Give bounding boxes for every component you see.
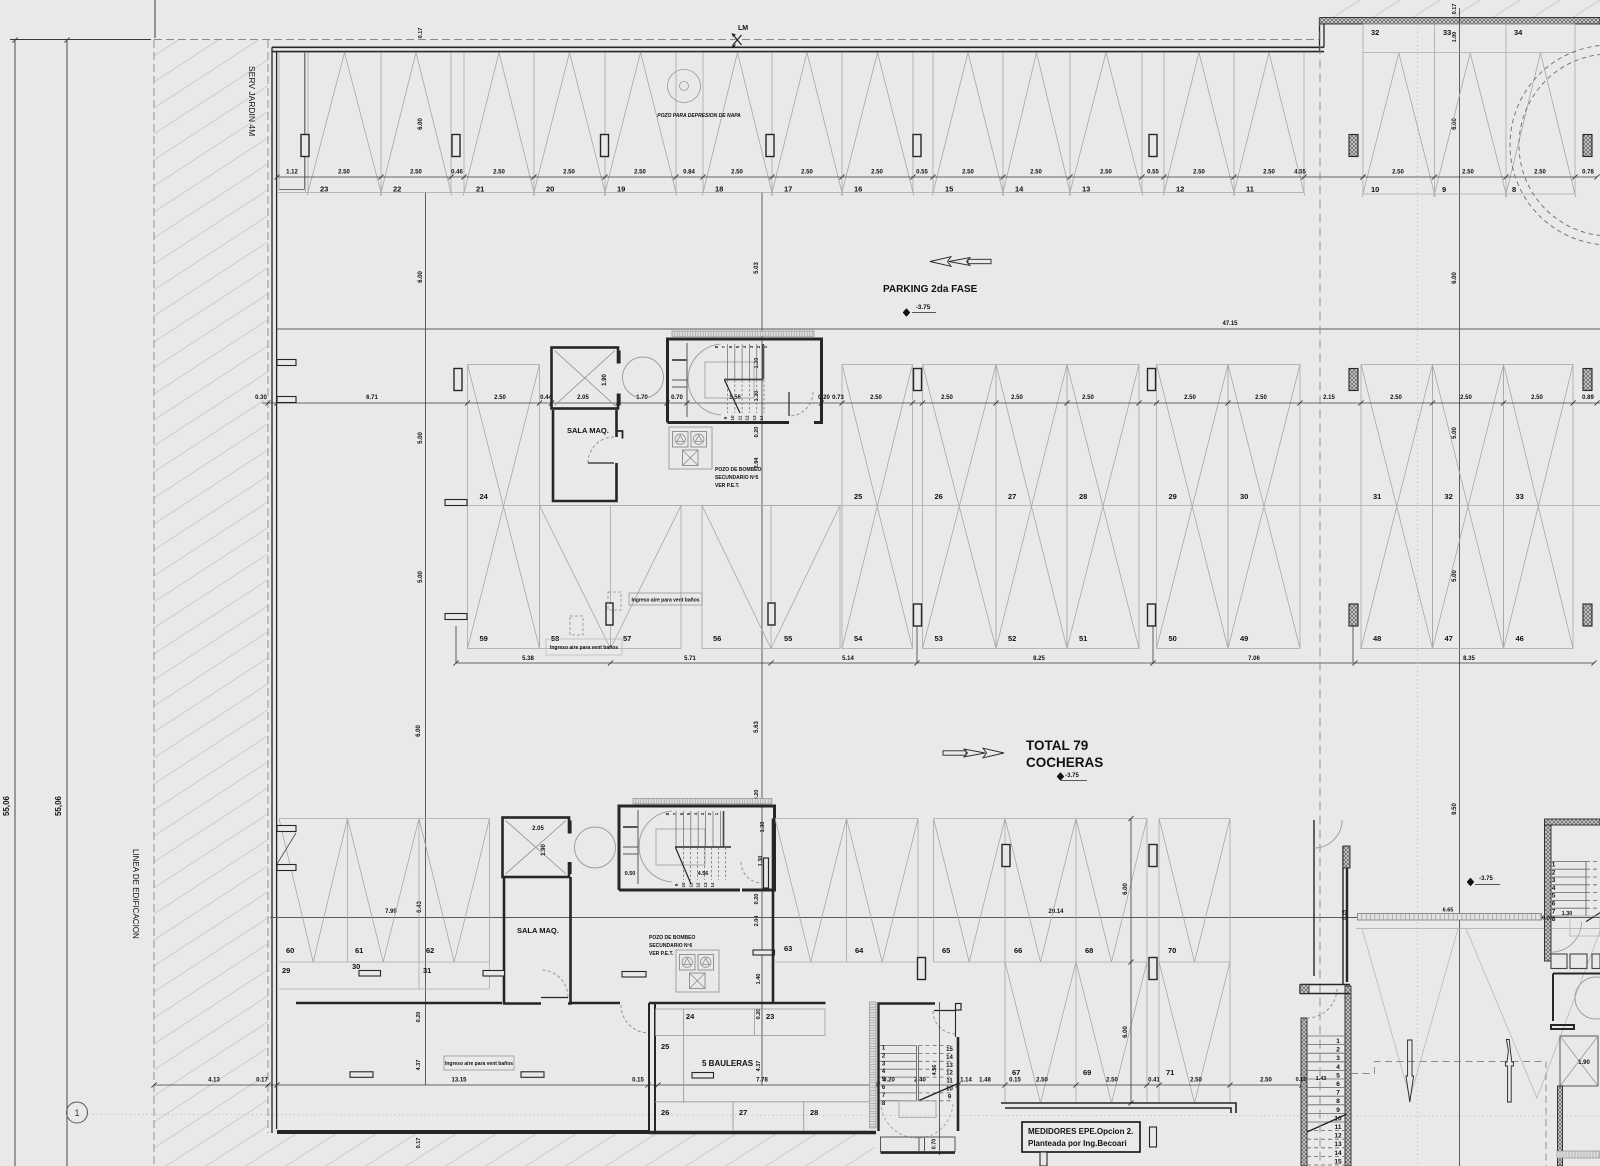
comb bottom right <box>1557 1151 1600 1158</box>
svg-text:0.17: 0.17 <box>418 28 424 39</box>
svg-text:13: 13 <box>1334 1141 1342 1148</box>
crosshatched boundary wall top right <box>1320 18 1600 25</box>
wall stubs left wall <box>277 360 296 366</box>
stair 3 door leaf <box>934 1010 956 1012</box>
svg-text:9: 9 <box>1442 185 1446 194</box>
svg-text:6.65: 6.65 <box>1443 908 1454 914</box>
svg-text:32: 32 <box>1445 492 1453 501</box>
svg-text:49: 49 <box>1240 634 1248 643</box>
parking stalls 58/57 pair <box>540 506 682 649</box>
svg-text:32: 32 <box>1371 28 1379 37</box>
svg-text:29: 29 <box>1169 492 1177 501</box>
svg-text:8: 8 <box>1552 916 1556 923</box>
dashed service rects <box>570 616 583 635</box>
reference line x425 <box>425 193 427 1085</box>
svg-text:11: 11 <box>1335 1124 1342 1131</box>
dimension line 55,06 outer <box>14 40 16 1166</box>
svg-text:61: 61 <box>355 946 363 955</box>
horizontal comb strip y917 <box>1358 914 1542 921</box>
stair 1 door arc <box>790 392 813 416</box>
parking stall 63 <box>775 819 847 963</box>
svg-text:5.00: 5.00 <box>418 432 424 444</box>
stair 1 void <box>705 362 754 398</box>
svg-text:2.50: 2.50 <box>962 170 974 176</box>
svg-text:70: 70 <box>1168 946 1176 955</box>
svg-text:2.50: 2.50 <box>1082 395 1094 401</box>
svg-text:27: 27 <box>739 1108 747 1117</box>
svg-text:51: 51 <box>1079 634 1087 643</box>
svg-text:0.15: 0.15 <box>1342 910 1348 920</box>
svg-text:2.50: 2.50 <box>1106 1078 1118 1084</box>
stair 3 landing rect <box>899 1101 936 1118</box>
circle core 1 <box>623 357 664 398</box>
svg-text:6.00: 6.00 <box>1123 1026 1129 1038</box>
svg-text:13: 13 <box>752 415 757 421</box>
grid bubble 1 <box>67 1102 88 1123</box>
svg-text:11: 11 <box>1246 185 1254 194</box>
svg-text:1.43: 1.43 <box>1316 1076 1327 1082</box>
top tick of left dimensions <box>10 39 151 41</box>
svg-text:SALA MAQ.: SALA MAQ. <box>517 926 559 935</box>
svg-text:28: 28 <box>1079 492 1087 501</box>
parking stall 8 <box>1505 53 1540 197</box>
ingreso aire label 2 <box>546 639 622 655</box>
svg-text:25: 25 <box>661 1042 669 1051</box>
stair 2 treads upper <box>675 811 677 847</box>
parking stall 69 <box>1076 962 1147 1103</box>
svg-text:65: 65 <box>942 946 950 955</box>
LM marker cross <box>733 34 742 45</box>
parking stalls 26/53 column <box>923 365 997 649</box>
svg-text:22: 22 <box>393 185 401 194</box>
medidores box <box>1022 1122 1140 1152</box>
svg-text:5.00: 5.00 <box>1452 427 1458 439</box>
svg-text:0.55: 0.55 <box>916 170 928 176</box>
svg-text:69: 69 <box>1083 1068 1091 1077</box>
svg-text:15: 15 <box>945 185 953 194</box>
svg-text:2.50: 2.50 <box>494 395 506 401</box>
svg-text:55,06: 55,06 <box>2 795 11 816</box>
svg-text:6.00: 6.00 <box>1123 883 1129 895</box>
svg-text:2.40: 2.40 <box>914 1078 926 1084</box>
middle band bottom dimension y663 <box>456 662 1594 664</box>
stair core 2 walls <box>619 806 775 890</box>
stair 1 guide arc <box>688 344 721 415</box>
svg-text:67: 67 <box>1012 1068 1020 1077</box>
stair 4 up line <box>1307 1114 1347 1132</box>
parking stalls 29/50 column <box>1157 365 1229 649</box>
level marker -3.75 cocheras <box>1057 773 1064 781</box>
svg-text:2.50: 2.50 <box>1534 170 1546 176</box>
stair 4 door arc <box>1307 988 1337 1018</box>
svg-text:POZO DE BOMBEO: POZO DE BOMBEO <box>715 467 762 473</box>
stair 4 right wall <box>1345 986 1351 1166</box>
hatched columns top row right <box>1349 135 1358 157</box>
stair 3 vertical dim <box>939 1002 941 1155</box>
right section top line <box>1356 928 1600 930</box>
svg-text:0.70: 0.70 <box>932 1139 938 1150</box>
stair 5 guide arc <box>1552 922 1581 953</box>
svg-text:19: 19 <box>617 185 625 194</box>
svg-text:71: 71 <box>1166 1068 1174 1077</box>
svg-text:9: 9 <box>1336 1107 1340 1114</box>
toilet room walls <box>1551 974 1600 1030</box>
stair 3 guide arc bottom <box>881 1102 953 1138</box>
lockers 29 30 31 <box>279 988 490 990</box>
stair core 1 comb <box>672 331 814 336</box>
svg-text:5: 5 <box>1552 893 1556 900</box>
svg-text:11: 11 <box>737 415 742 420</box>
svg-text:2.50: 2.50 <box>1036 1078 1048 1084</box>
svg-text:33: 33 <box>1516 492 1524 501</box>
parking stalls 25/54 column <box>842 365 913 649</box>
svg-text:63: 63 <box>784 944 792 953</box>
small column rects bottom <box>1150 1127 1157 1147</box>
svg-text:2.50: 2.50 <box>410 170 422 176</box>
top right dim line <box>1363 176 1597 178</box>
svg-text:5.03: 5.03 <box>754 262 760 274</box>
svg-text:2.50: 2.50 <box>941 395 953 401</box>
svg-text:11: 11 <box>688 882 693 887</box>
svg-text:0.20: 0.20 <box>1542 916 1552 922</box>
bauleras shelf strip <box>656 1009 826 1036</box>
parking stall 19 <box>604 53 640 196</box>
svg-text:-3.75: -3.75 <box>1065 773 1079 779</box>
svg-text:1: 1 <box>1336 1038 1340 1045</box>
sala maq 2 room <box>504 877 571 1004</box>
svg-text:SECUNDARIO Nº6: SECUNDARIO Nº6 <box>649 943 692 949</box>
svg-text:13.15: 13.15 <box>451 1078 467 1084</box>
parking stalls 32/47 column <box>1433 365 1504 649</box>
svg-text:6.00: 6.00 <box>418 118 424 130</box>
svg-text:1.40: 1.40 <box>756 974 762 985</box>
svg-text:6.00: 6.00 <box>1452 272 1458 284</box>
svg-text:LINEA DE EDIFICACION: LINEA DE EDIFICACION <box>131 849 140 939</box>
pump box 1 <box>669 427 712 469</box>
vent rect near 63 <box>753 950 775 955</box>
right section big V stalls <box>1362 929 1458 1099</box>
ingreso aire label bottom room <box>444 1056 514 1070</box>
parking stalls 33/46 column <box>1504 365 1574 649</box>
svg-text:11: 11 <box>946 1079 953 1085</box>
dashed boundary line left of band <box>153 40 155 1166</box>
parking stall 64 <box>847 819 919 963</box>
svg-text:0.20: 0.20 <box>754 894 760 905</box>
svg-text:1: 1 <box>74 1108 79 1118</box>
top wall double line <box>272 46 1324 48</box>
stair 3 up line <box>919 1084 957 1101</box>
svg-text:5.14: 5.14 <box>842 656 854 662</box>
parking stall 23 <box>307 53 344 196</box>
parking stall 18 <box>702 53 737 196</box>
svg-text:5.71: 5.71 <box>684 656 696 662</box>
svg-text:2.50: 2.50 <box>1011 395 1023 401</box>
parking stall 11 <box>1233 53 1269 196</box>
circle core 2 <box>575 827 616 868</box>
svg-text:30: 30 <box>352 962 360 971</box>
svg-text:14: 14 <box>759 415 764 421</box>
svg-text:6.00: 6.00 <box>418 271 424 283</box>
svg-text:2.50: 2.50 <box>1531 395 1543 401</box>
svg-text:1.48: 1.48 <box>979 1078 991 1084</box>
right edge wall hatched <box>1558 1086 1563 1166</box>
svg-text:LM: LM <box>738 25 748 32</box>
svg-text:28: 28 <box>810 1108 818 1117</box>
dimension line 55,06 inner <box>66 40 68 1166</box>
svg-text:TOTAL 79: TOTAL 79 <box>1026 738 1088 753</box>
svg-text:Ingreso aire para vent baños: Ingreso aire para vent baños <box>550 645 618 651</box>
svg-text:12: 12 <box>1334 1133 1342 1140</box>
vertical line top left corner <box>154 0 156 38</box>
svg-text:52: 52 <box>1008 634 1016 643</box>
elevator shaft right edge <box>1560 1036 1598 1086</box>
parking stalls 27/52 column <box>996 365 1067 649</box>
svg-text:2.50: 2.50 <box>563 170 575 176</box>
svg-text:13: 13 <box>946 1063 953 1069</box>
svg-text:14: 14 <box>1334 1150 1342 1157</box>
stair 5 walls <box>1545 819 1600 825</box>
svg-text:VER P.E.T.: VER P.E.T. <box>649 951 674 957</box>
svg-text:0.20: 0.20 <box>416 1012 422 1023</box>
stair 3 treads <box>880 1045 917 1047</box>
svg-text:1.90: 1.90 <box>602 374 608 386</box>
svg-text:26: 26 <box>935 492 943 501</box>
svg-text:0.20: 0.20 <box>754 427 760 438</box>
parking stall 66 <box>1005 819 1076 963</box>
svg-text:31: 31 <box>423 966 431 975</box>
svg-text:2.50: 2.50 <box>1263 170 1275 176</box>
svg-text:5.00: 5.00 <box>418 571 424 583</box>
svg-text:0.17: 0.17 <box>256 1078 268 1084</box>
svg-text:29: 29 <box>282 966 290 975</box>
parking stalls 28/51 column <box>1067 365 1139 649</box>
sala maq 2 door arc <box>542 970 568 997</box>
parking stall 60 <box>279 819 348 963</box>
svg-text:0.78: 0.78 <box>1582 170 1594 176</box>
svg-text:6.43: 6.43 <box>417 901 423 913</box>
ingreso aire label boxed <box>629 593 702 605</box>
hatch strip top right outside <box>1320 0 1600 18</box>
level marker -3.75 parking <box>903 309 910 317</box>
svg-text:1.12: 1.12 <box>286 170 298 176</box>
stair 2 up line <box>676 848 692 885</box>
parking stall 17 <box>771 53 807 196</box>
svg-text:15: 15 <box>1334 1158 1342 1165</box>
reference line x762 <box>761 193 763 1085</box>
svg-text:14: 14 <box>1015 185 1024 194</box>
parking stall 14 <box>1002 53 1036 196</box>
bottom dimension line y1085 <box>154 1084 1302 1086</box>
svg-text:6: 6 <box>1552 901 1556 908</box>
wall stubs left of middle band <box>445 500 467 506</box>
svg-text:8.25: 8.25 <box>1033 656 1045 662</box>
svg-text:2.05: 2.05 <box>532 826 544 832</box>
svg-text:5: 5 <box>1336 1072 1340 1079</box>
bottom outer wall <box>277 1130 649 1134</box>
svg-text:30: 30 <box>1240 492 1248 501</box>
left jamb structure x1314 <box>1314 820 1343 984</box>
svg-text:2.50: 2.50 <box>493 170 505 176</box>
svg-text:2: 2 <box>1552 869 1556 876</box>
svg-text:POZO PARA DEPRESION DE NAPA: POZO PARA DEPRESION DE NAPA <box>657 113 741 119</box>
parking stall 62 <box>419 819 490 963</box>
svg-text:VER P.E.T.: VER P.E.T. <box>715 483 740 489</box>
svg-text:1.90: 1.90 <box>1578 1060 1590 1066</box>
svg-text:8: 8 <box>1336 1098 1340 1105</box>
svg-text:SECUNDARIO Nº5: SECUNDARIO Nº5 <box>715 475 758 481</box>
svg-text:0.17: 0.17 <box>1452 4 1458 15</box>
svg-text:3: 3 <box>1336 1055 1340 1062</box>
stair 3 walls <box>879 1004 936 1132</box>
stair 2 guide arc <box>639 811 672 882</box>
svg-text:5 BAULERAS: 5 BAULERAS <box>702 1059 754 1068</box>
stair 3 lower boxes <box>881 1137 920 1152</box>
svg-text:66: 66 <box>1014 946 1022 955</box>
svg-text:7: 7 <box>1336 1090 1340 1097</box>
svg-text:0.84: 0.84 <box>683 170 695 176</box>
svg-text:-3.75: -3.75 <box>916 304 931 311</box>
svg-text:0.41: 0.41 <box>1148 1078 1160 1084</box>
svg-text:62: 62 <box>426 946 434 955</box>
svg-text:2.15: 2.15 <box>1323 395 1335 401</box>
parking stalls 30/49 column <box>1228 365 1300 649</box>
svg-text:MEDIDORES EPE.Opcion 2.: MEDIDORES EPE.Opcion 2. <box>1028 1127 1133 1136</box>
stair 3 comb wall <box>870 1002 877 1128</box>
vent rect open area <box>622 972 646 978</box>
columns top row <box>301 135 309 157</box>
top row dimension line <box>277 176 1363 178</box>
top row stall dividers <box>305 53 307 193</box>
niche 1.12 inner lines <box>278 52 280 190</box>
top right stall line <box>1363 52 1575 54</box>
svg-text:10: 10 <box>681 882 686 888</box>
svg-text:27: 27 <box>1008 492 1016 501</box>
svg-text:2.50: 2.50 <box>871 170 883 176</box>
L wall bottom of jamb <box>1300 985 1350 994</box>
svg-text:12: 12 <box>1176 185 1184 194</box>
svg-text:4.56: 4.56 <box>932 1065 938 1076</box>
svg-text:59: 59 <box>480 634 488 643</box>
svg-text:2.50: 2.50 <box>1255 395 1267 401</box>
svg-text:1: 1 <box>1552 862 1556 869</box>
svg-text:-3.75: -3.75 <box>1479 876 1493 882</box>
svg-text:24: 24 <box>480 492 489 501</box>
svg-text:4: 4 <box>1336 1064 1340 1071</box>
svg-text:34: 34 <box>1514 28 1523 37</box>
svg-text:10: 10 <box>1371 185 1379 194</box>
svg-text:50: 50 <box>1169 634 1177 643</box>
stair core 1 walls <box>668 339 822 423</box>
svg-text:13: 13 <box>703 882 708 888</box>
svg-text:SALA MAQ.: SALA MAQ. <box>567 426 609 435</box>
svg-text:2.05: 2.05 <box>577 395 589 401</box>
svg-text:1.30: 1.30 <box>760 822 766 833</box>
columns bottom band <box>918 958 926 980</box>
svg-text:55,06: 55,06 <box>54 795 63 816</box>
svg-text:14: 14 <box>946 1055 953 1061</box>
svg-text:2.50: 2.50 <box>1184 395 1196 401</box>
dashed line arrows <box>1351 1062 1546 1166</box>
svg-text:0.20: 0.20 <box>756 1009 762 1020</box>
hatch strip below building <box>268 1133 875 1166</box>
svg-text:58: 58 <box>551 634 559 643</box>
parking stalls 24/59 column <box>468 365 540 649</box>
svg-text:POZO DE BOMBEO: POZO DE BOMBEO <box>649 935 696 941</box>
parking stall 21 <box>463 53 499 196</box>
svg-text:1.00: 1.00 <box>1452 32 1458 43</box>
bauleras partitions <box>683 1009 685 1103</box>
svg-text:PARKING 2da FASE: PARKING 2da FASE <box>883 284 978 295</box>
svg-text:5.38: 5.38 <box>522 656 534 662</box>
svg-text:2.50: 2.50 <box>1260 1078 1272 1084</box>
stair 3 door arc <box>933 1011 955 1034</box>
svg-text:20: 20 <box>546 185 554 194</box>
wall right of sala maq zone <box>772 819 775 1004</box>
stair 4 treads <box>1307 1035 1345 1037</box>
svg-text:33: 33 <box>1443 28 1451 37</box>
stair 2 door arc <box>741 862 761 883</box>
stair 2 treads lower dashed <box>683 848 685 881</box>
svg-text:16: 16 <box>854 185 862 194</box>
svg-text:46: 46 <box>1516 634 1524 643</box>
svg-text:9.50: 9.50 <box>1452 803 1458 815</box>
svg-text:31: 31 <box>1373 492 1381 501</box>
columns lower middle <box>606 603 613 625</box>
bottom band left outline <box>279 818 490 820</box>
svg-text:4.37: 4.37 <box>416 1060 422 1071</box>
svg-text:0.55: 0.55 <box>1147 170 1159 176</box>
svg-text:Planteada por Ing.Becoari: Planteada por Ing.Becoari <box>1028 1139 1127 1148</box>
svg-text:54: 54 <box>854 634 863 643</box>
svg-text:15: 15 <box>946 1047 953 1053</box>
svg-text:0.15: 0.15 <box>632 1078 644 1084</box>
middle divider line y505.5 <box>445 505 1600 507</box>
svg-text:2.50: 2.50 <box>1100 170 1112 176</box>
svg-text:0.15: 0.15 <box>1296 1077 1307 1083</box>
svg-text:2.50: 2.50 <box>1030 170 1042 176</box>
sala maq 1 room <box>553 410 617 501</box>
stair 2 closet <box>637 810 639 884</box>
svg-text:2.50: 2.50 <box>338 170 350 176</box>
svg-text:2.04: 2.04 <box>754 915 760 927</box>
svg-text:18: 18 <box>715 185 723 194</box>
svg-text:25: 25 <box>854 492 862 501</box>
left room side walls <box>648 1003 650 1131</box>
svg-text:0.73: 0.73 <box>832 395 844 401</box>
stair 1 treads upper <box>727 344 729 380</box>
svg-text:4: 4 <box>1552 885 1556 892</box>
svg-text:12: 12 <box>745 415 750 421</box>
svg-text:47: 47 <box>1445 634 1453 643</box>
svg-text:6.00: 6.00 <box>416 725 422 737</box>
elevator core 2 <box>503 818 570 878</box>
bottom band right outlines <box>934 818 1148 820</box>
arc door right mid <box>1314 820 1342 848</box>
svg-text:2: 2 <box>1336 1047 1340 1054</box>
pozo depresion circle <box>668 70 701 103</box>
svg-text:Ingreso aire para vent baños: Ingreso aire para vent baños <box>445 1061 513 1067</box>
svg-text:26: 26 <box>661 1108 669 1117</box>
svg-text:2.50: 2.50 <box>1392 170 1404 176</box>
parking stalls 31/48 column <box>1361 365 1433 649</box>
stair 1 treads lower dashed <box>727 380 729 413</box>
parking stall 67 <box>1005 962 1076 1103</box>
ramp arrow down <box>1406 1040 1414 1102</box>
svg-text:4.56: 4.56 <box>698 871 709 877</box>
columns middle band <box>914 369 922 391</box>
parking stall 71 <box>1159 962 1230 1103</box>
svg-text:57: 57 <box>623 634 631 643</box>
